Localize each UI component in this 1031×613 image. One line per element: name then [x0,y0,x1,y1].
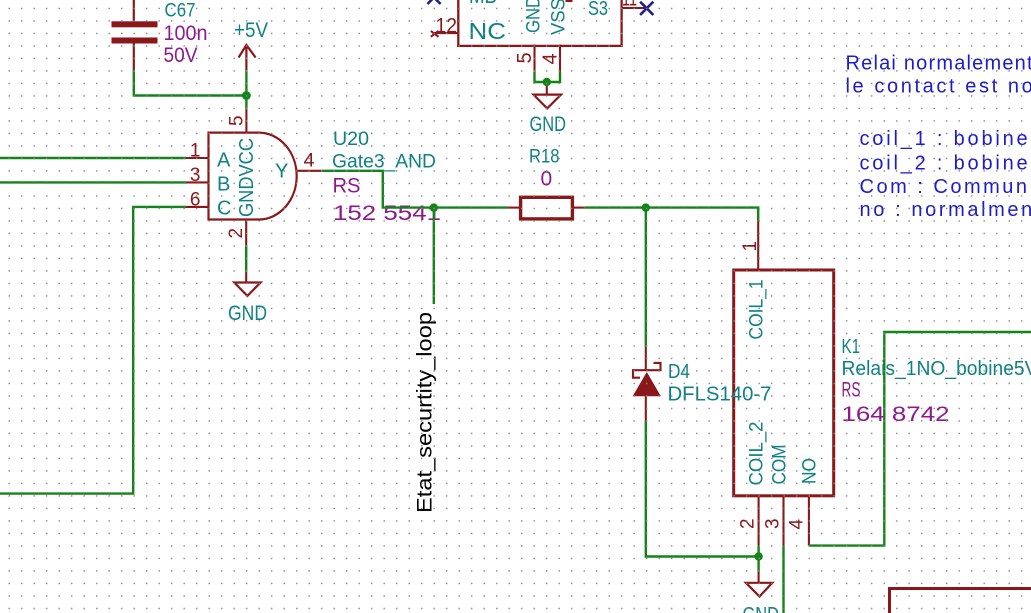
IC pin 5 stub [533,45,535,72]
junction at IC GND node [543,78,551,86]
wires IC pins 5 and 4 to GND [535,72,561,82]
bottom right component box [890,589,1031,613]
wire +5V power pin [245,70,247,95]
no-connect blue X on pin 11 [640,2,653,15]
relay pin 4 stub [808,496,810,546]
junction at resistor-diode node [642,203,650,211]
gate pin 6 stub [186,206,209,208]
IC pin 11 stub [622,7,647,9]
wire relay pin2 to GND [757,546,759,557]
tiny clipped maroon text above S3 [566,0,573,2]
IC pin 12 stub [433,32,459,34]
dangling-end x marker on pin 12 [431,31,439,37]
gate pin 2 stub [245,220,247,246]
wire junction down to diode [645,208,647,347]
wire relay pin 4 to right edge [809,332,1031,546]
relay pin 2 stub [758,496,760,546]
wire input C from lower left [0,207,186,494]
ground symbol below gate [234,272,260,296]
relay K1 body [734,270,834,496]
resistor R18 [508,197,585,219]
IC box (top) [458,0,621,46]
ground symbol below IC [534,82,562,108]
relay K1 pin 1 stub [757,221,759,270]
wire resistor to relay column [585,208,758,221]
junction at +5V node [242,91,251,100]
power symbol +5V [239,45,256,70]
op-amp U20 AND-gate body [209,133,297,220]
wire diode bottom to relay pin2 node [646,421,759,557]
ground symbol below relay [746,557,772,597]
gate pin 5 stub [245,109,247,133]
wire gate output to resistor row [322,171,508,208]
wire input A from left edge [0,157,186,159]
wire from C67 to +5V junction [134,70,247,96]
diode D4 [633,347,661,421]
wire relay pin 3 down to edge [782,546,784,613]
wire input B from left edge [0,181,186,183]
net label Etat_securtity_loop wire [433,208,435,304]
IC pin 4 stub [559,45,561,72]
gate output pin 4 stub [296,170,322,172]
relay pin 3 stub [782,496,784,546]
gate pin 3 stub [186,181,209,183]
junction at net label node [430,203,438,211]
no-connect blue X above pin 12 [427,0,440,4]
wire gate pin 2 to GND [245,245,247,271]
capacitor C67 [112,0,158,70]
gate pin 1 stub [186,157,209,159]
junction at relay pin2 GND node [754,552,762,560]
wire +5V junction down to gate pin 5 [245,96,247,110]
